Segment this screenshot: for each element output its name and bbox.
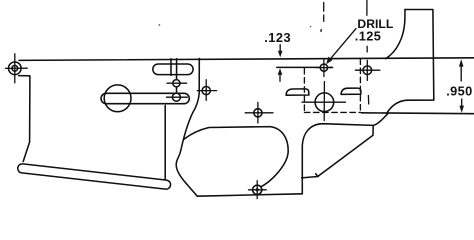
wire takedown centerline dashes [367, 1, 369, 105]
svg-text:.123: .123 [264, 30, 291, 45]
wire shelf rise to rear deck [373, 113, 388, 125]
dimension .950 arrows [459, 59, 464, 112]
node small hole upper (176,82) [167, 80, 187, 87]
node pivot pin hole [5, 54, 27, 83]
wire rear lower deck line [361, 112, 474, 115]
wire receiver step ledge line (.123) [277, 66, 333, 68]
node bolt catch plunger circle [104, 85, 131, 112]
wire trigger guard opening top edge and rear arc [184, 127, 288, 188]
wire mag catch button lines [170, 59, 172, 76]
dimension .123 arrows [278, 45, 283, 82]
node right boss hump [341, 88, 361, 94]
node bolt catch bar [106, 93, 184, 105]
wire magwell rear edge [164, 105, 166, 179]
wire grip front edge with fillet to shelf [302, 124, 373, 194]
wire grip short horizontal [302, 174, 318, 178]
leader line for DRILL .125 [326, 29, 356, 65]
node trigger pin crosshair (258,113) [245, 102, 273, 123]
buffer tower front fillet [386, 10, 405, 59]
node front pin crosshair (206,91) [197, 80, 216, 101]
wire drill centerline dashes above deck [321, 3, 324, 32]
wire rear of upper shelf and trigger guard front post [176, 58, 302, 196]
wire top deck datum line [19, 58, 474, 61]
wire magwell bottom flare strip [22, 168, 166, 184]
node selector hole [302, 82, 346, 121]
svg-text:.950: .950 [446, 84, 473, 99]
node takedown pin hole [355, 60, 380, 80]
node left boss hump [286, 89, 309, 95]
hidden pocket dashed outline [304, 59, 360, 112]
node magazine catch slot [158, 63, 188, 75]
svg-text:.125: .125 [355, 29, 382, 44]
speck artifacts [159, 24, 161, 26]
node drill hole .125 [316, 60, 332, 77]
wire front step and magwell front edge [19, 76, 30, 162]
node small hole lower (177,98) [166, 93, 187, 101]
wire grip step and diagonal [318, 125, 373, 176]
buffer tower outline [387, 10, 434, 114]
node trigger guard pin [249, 181, 267, 199]
